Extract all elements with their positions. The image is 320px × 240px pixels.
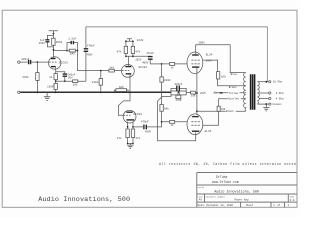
triode U1b ECC83: [122, 65, 148, 78]
svg-text:68k: 68k: [164, 107, 169, 111]
transformer T1 primary winding: [244, 73, 246, 112]
resistor R15 47k: [117, 129, 129, 140]
wire EL34-1 plate to Blue: [196, 45, 246, 73]
resistor R16 47k: [131, 129, 140, 140]
svg-text:16 Ohm: 16 Ohm: [273, 80, 283, 84]
resistor R8 1k8 (T2 grid stopper): [109, 65, 122, 72]
svg-text:470uF: 470uF: [87, 45, 95, 48]
input terminal IN: [18, 61, 20, 63]
resistor R4 1k (cathode): [49, 74, 57, 80]
svg-text:400V: 400V: [142, 61, 149, 64]
resistor R12 220k: [160, 77, 171, 82]
label Black: [226, 109, 236, 113]
divider chain wire: [161, 64, 163, 122]
node T2 cathode rail junction: [129, 91, 131, 93]
svg-text:244V: 244V: [137, 39, 144, 42]
wire T2 plate riser: [128, 56, 130, 66]
wire feedback top line: [86, 27, 267, 82]
wire plate riser: [52, 34, 54, 58]
B+ terminal: [214, 92, 246, 94]
wire EL34-2 plate to Black: [197, 110, 246, 112]
svg-text:400V: 400V: [86, 54, 93, 57]
svg-text:www.DrTube.com: www.DrTube.com: [212, 180, 239, 184]
svg-text:470uF: 470uF: [146, 52, 154, 55]
svg-text:8 Ohm: 8 Ohm: [276, 91, 284, 95]
svg-text:Black: Black: [226, 109, 234, 113]
ground symbol (secondary common): [263, 104, 269, 111]
pentode V1 EL34 (upper): [187, 52, 213, 74]
T3 bottom leads: [128, 122, 133, 129]
svg-text:of: of: [277, 204, 280, 207]
node n3: [77, 50, 79, 52]
transformer T1 secondary winding: [257, 82, 259, 104]
transformer core: [251, 74, 255, 109]
svg-text:1k: 1k: [171, 65, 175, 69]
cathode network T1: wire: [55, 67, 57, 92]
resistor R6 10k (feedback): [65, 80, 86, 87]
wire n3 to grid T2: [78, 51, 109, 71]
svg-text:10R: 10R: [191, 95, 196, 98]
wire EL34-1 cathode (totem to lower plate): [196, 68, 198, 115]
resistor R14 68R (rail bridge): [113, 86, 129, 93]
resistor R11 1k (EL34-1 grid stopper): [162, 63, 188, 70]
capacitor C6 470nF 400V (coupling to upper EL34): [142, 52, 154, 65]
svg-text:1.5nF: 1.5nF: [68, 38, 76, 41]
title block frame: [197, 173, 297, 208]
node EL34-2 grid: [161, 121, 163, 123]
svg-text:Yellow: Yellow: [229, 91, 239, 95]
svg-text:EL34: EL34: [205, 130, 212, 133]
svg-text:1: 1: [273, 204, 275, 207]
svg-text:DrTube: DrTube: [216, 175, 228, 179]
node grid-leak tap: [100, 70, 102, 72]
resistor R2 250k (anode load): [52, 38, 63, 45]
ground rail (0V bus): [20, 91, 186, 93]
svg-text:Blue: Blue: [231, 72, 238, 76]
svg-text:ECC88: ECC88: [134, 113, 143, 116]
svg-text:Title: Title: [197, 186, 204, 189]
svg-text:680uF: 680uF: [175, 83, 183, 86]
svg-text:Audio Innovations, 500: Audio Innovations, 500: [214, 190, 259, 195]
triode U1a ECC83: [49, 57, 69, 69]
svg-text:68R: 68R: [119, 86, 124, 89]
wire coupling to grid line: [150, 63, 161, 65]
capacitor C4 680uF 50V (cathode bypass): [56, 72, 76, 82]
ground terminal: [18, 91, 20, 93]
svg-text:Scarlet: Scarlet: [228, 97, 239, 101]
node plate top: [53, 33, 55, 35]
svg-text:1k: 1k: [49, 75, 53, 79]
wire EL34-2 screen: [203, 111, 219, 125]
node n2: [66, 50, 68, 52]
resistor R13 68k: [160, 104, 169, 111]
triode U2a ECC83 (lower): [123, 110, 142, 123]
resistor R18 100 (screen stopper upper): [217, 72, 246, 86]
resistor R17 1k (EL34-2 grid stopper): [162, 120, 188, 127]
svg-text:50V: 50V: [68, 76, 73, 79]
svg-text:0.0: 0.0: [290, 199, 295, 202]
svg-text:December 28, 2000: December 28, 2000: [207, 203, 234, 207]
svg-text:1k: 1k: [171, 123, 175, 127]
svg-text:192V: 192V: [135, 59, 142, 62]
svg-text:250V: 250V: [39, 42, 46, 45]
capacitor C5 470uF 400V (feedback DC block): [84, 27, 95, 81]
resistor R9 47k (plate load a): [117, 41, 128, 56]
wire T3 out: [133, 122, 162, 127]
node 244V rail tap: [125, 39, 144, 42]
svg-text:100: 100: [221, 75, 226, 78]
capacitor C7 470nF 400V (coupling to lower EL34): [141, 121, 152, 134]
tap 8 Ohm: [259, 91, 284, 95]
wire plate node: [126, 55, 150, 57]
label Yellow: [228, 91, 239, 95]
capacitor C3 1.5nF (bridge over R3): [67, 38, 78, 51]
resistor R1 470k (grid leak): [22, 62, 39, 92]
svg-text:Audio Innovations, 500: Audio Innovations, 500: [38, 196, 130, 204]
svg-text:Sheet: Sheet: [246, 204, 254, 207]
wire input to coupling cap: [20, 61, 28, 63]
svg-text:470uF: 470uF: [141, 121, 149, 124]
svg-text:47k: 47k: [135, 50, 140, 54]
cathode cluster: wide resistor box: [171, 91, 186, 95]
svg-text:4 Ohm: 4 Ohm: [276, 96, 284, 100]
svg-text:220k: 220k: [92, 80, 99, 84]
svg-text:1k8: 1k8: [109, 65, 114, 69]
svg-text:470R: 470R: [176, 99, 182, 102]
resistor R19 10R (cathode sense): [186, 91, 197, 97]
wire cap to grid T1: [31, 61, 49, 63]
resistor R5 150R (feedback leg): [47, 83, 57, 89]
svg-text:47k: 47k: [117, 50, 122, 54]
power flag B+ (stage1): [49, 31, 58, 34]
svg-text:150R: 150R: [47, 85, 54, 88]
tap 16 Ohm: [257, 80, 282, 84]
node cathode junction: [55, 80, 57, 82]
svg-text:EL34: EL34: [206, 53, 213, 56]
tap Common: [257, 103, 282, 106]
svg-text:10k: 10k: [73, 83, 78, 87]
svg-text:Power Amp: Power Amp: [235, 199, 249, 202]
tap 4 Ohm: [259, 96, 284, 100]
ground bus under T3: [128, 138, 133, 145]
capacitor C2 1uF 250V (anode bypass): [39, 35, 54, 47]
resistor R10 47k (plate load b): [131, 41, 140, 56]
svg-text:47k: 47k: [117, 136, 122, 140]
rail junction dots: [36, 91, 38, 93]
wire EL34-2 cathode return: [158, 95, 196, 141]
ground symbol (left): [44, 92, 50, 100]
svg-text:220nF: 220nF: [21, 58, 29, 61]
wire plate node to RC network: [53, 50, 67, 52]
svg-text:47k: 47k: [136, 136, 141, 140]
svg-text:220k: 220k: [164, 78, 171, 82]
svg-text:20V5: 20V5: [200, 92, 206, 95]
wire cathode junction: [56, 80, 65, 82]
svg-text:250k: 250k: [56, 40, 63, 44]
svg-text:290V: 290V: [198, 42, 205, 45]
svg-text:ECC83: ECC83: [139, 66, 148, 69]
wire T3 grid routing: [118, 92, 130, 115]
svg-text:1M5: 1M5: [70, 53, 75, 56]
resistor R3 1M5 (series): [67, 49, 78, 56]
border frame: [2, 10, 297, 207]
resistor R21 100 (screen stopper lower): [217, 99, 246, 111]
node EL34-1 grid: [161, 63, 163, 65]
capacitor C8 680uF (cathode bypass): [171, 83, 186, 92]
svg-text:400V: 400V: [145, 131, 152, 134]
svg-text:470k: 470k: [22, 75, 29, 79]
svg-text:Date:: Date:: [198, 204, 206, 207]
svg-text:ECC83: ECC83: [59, 62, 68, 65]
label Scarlet: [228, 97, 241, 101]
wire EL34-1 screen: [203, 60, 218, 72]
node plate bottom: [53, 49, 55, 51]
resistor R7 220k (T2 grid leak): [92, 71, 103, 93]
svg-text:1: 1: [288, 204, 290, 207]
svg-text:Document Number: Document Number: [205, 195, 225, 198]
svg-text:Brown: Brown: [229, 86, 237, 89]
pentode V2 EL34 (lower): [187, 114, 212, 135]
svg-text:Common: Common: [272, 103, 282, 106]
T2 cathode wire to rail: [129, 75, 131, 93]
ground symbol (under T3): [127, 145, 134, 148]
resistor R20 470R (below cluster): [176, 95, 182, 102]
svg-text:All resistors 1W, 1%, Carbon f: All resistors 1W, 1%, Carbon film unless…: [159, 162, 296, 166]
svg-text:A4: A4: [199, 199, 203, 202]
node j1: [37, 61, 39, 63]
capacitor C1 220nF (input): [21, 58, 30, 64]
